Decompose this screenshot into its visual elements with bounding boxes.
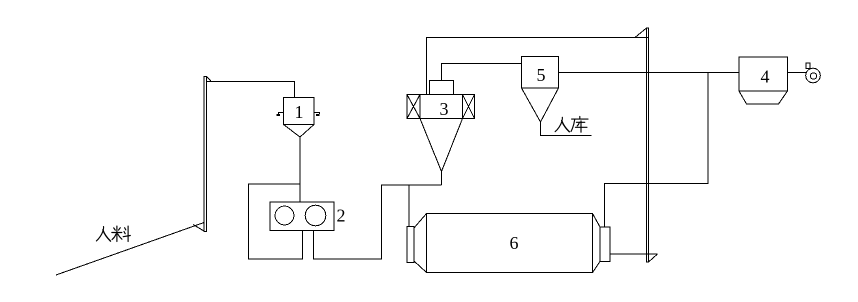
separator 2 right roller xyxy=(305,205,326,226)
feeder 1 left mount xyxy=(278,113,283,115)
wire mill 6 discharge to elevator BE2 boot xyxy=(610,253,658,255)
wire mill 6 return riser xyxy=(605,73,709,228)
feeder 1 box xyxy=(284,98,315,125)
fan hub xyxy=(810,73,816,79)
classifier 3 top box xyxy=(430,81,454,95)
separator 2 left roller xyxy=(275,206,294,225)
feeder 1 funnel xyxy=(284,125,315,138)
wire separator 2 underflow to mill feed xyxy=(314,185,442,259)
collector 4 box xyxy=(739,57,788,91)
classifier 3 left X box xyxy=(407,95,420,119)
mill 6 left neck xyxy=(414,214,427,273)
classifier 3 right X box xyxy=(463,95,475,119)
feed arrowhead xyxy=(193,225,204,232)
fan casing xyxy=(806,68,821,83)
wire BE1 discharge to feeder 1 xyxy=(207,82,295,98)
bucket elevator BE1 top pennant xyxy=(207,77,212,82)
wire classifier 3 fines to cyclone 5 xyxy=(442,64,522,81)
wire classifier 3 exhaust to elevator BE2 top xyxy=(427,38,649,95)
mill 6 right neck xyxy=(593,214,601,273)
svg-text:4: 4 xyxy=(761,66,770,86)
wire classifier 3 cone outlet xyxy=(441,172,443,186)
svg-text:1: 1 xyxy=(295,102,304,122)
bucket elevator BE2 bottom pennant xyxy=(649,254,658,262)
wire feed line xyxy=(56,223,204,276)
wire cyclone 5 air to collector 4 xyxy=(559,72,740,74)
svg-text:2: 2 xyxy=(337,206,346,226)
bucket elevator BE2 body xyxy=(647,28,649,262)
text 入库 xyxy=(555,117,588,133)
mill 6 left trunnion xyxy=(407,227,414,263)
svg-text:5: 5 xyxy=(537,65,546,85)
text 入料 xyxy=(96,226,130,241)
bucket elevator BE1 body xyxy=(204,77,207,232)
wire separator 2 recycle loop xyxy=(249,184,303,259)
classifier 3 main box xyxy=(407,95,475,119)
wire collector 4 to fan xyxy=(788,72,807,74)
wire cyclone 5 product discharge xyxy=(541,122,592,136)
mill 6 shell xyxy=(427,214,593,273)
svg-text:6: 6 xyxy=(510,233,519,253)
cyclone 5 box xyxy=(522,57,559,89)
mill 6 right trunnion xyxy=(600,227,610,262)
cyclone 5 cone xyxy=(522,88,559,122)
svg-text:3: 3 xyxy=(440,99,449,119)
classifier 3 cone xyxy=(420,119,463,172)
bucket elevator BE2 top pennant xyxy=(635,28,647,38)
collector 4 hopper xyxy=(739,91,788,104)
fan outlet duct xyxy=(806,63,810,69)
wire mill inlet drop xyxy=(408,185,410,227)
wire feeder 1 to separator 2 xyxy=(299,137,301,202)
separator 2 box xyxy=(270,202,334,231)
feeder 1 right mount xyxy=(314,113,319,115)
